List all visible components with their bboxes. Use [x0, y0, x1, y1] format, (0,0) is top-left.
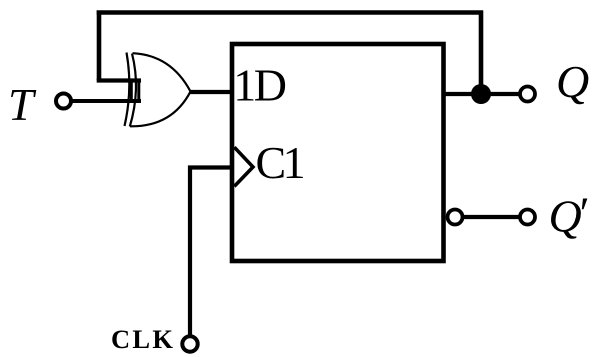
D flip-flop box U2: [232, 44, 444, 261]
wire: Q output: [443, 92, 519, 96]
wire: CLK vertical: [188, 166, 192, 336]
wire: XOR upper input: [97, 78, 141, 82]
svg-text:Q′: Q′: [549, 188, 588, 242]
terminal circle Q': [520, 210, 535, 225]
svg-text:CLK: CLK: [111, 324, 175, 354]
wire: XOR output to 1D: [190, 90, 235, 94]
terminal circle T: [56, 94, 71, 109]
wire: feedback left vertical: [97, 11, 102, 81]
junction dot on Q net: [471, 84, 491, 104]
svg-text:C1: C1: [256, 137, 304, 188]
wire: T input: [72, 99, 141, 103]
wire segment: lower input crossing bar in XOR back: [137, 79, 140, 103]
wire segment: upper input crossing bar in XOR back: [130, 79, 133, 103]
terminal circle Q: [520, 87, 535, 102]
wire: CLK horizontal: [188, 165, 232, 169]
svg-text:T: T: [8, 79, 37, 130]
XOR gate U1: [125, 53, 191, 127]
wire: feedback top horizontal: [97, 10, 483, 15]
svg-text:Q: Q: [556, 56, 589, 107]
terminal circle Q' at box edge: [448, 210, 463, 225]
svg-text:1D: 1D: [233, 60, 285, 111]
clock triangle on C1 input: [234, 147, 253, 186]
terminal circle CLK: [182, 336, 197, 351]
wire: feedback right vertical: [479, 11, 484, 95]
wire: Q' output: [463, 215, 519, 219]
